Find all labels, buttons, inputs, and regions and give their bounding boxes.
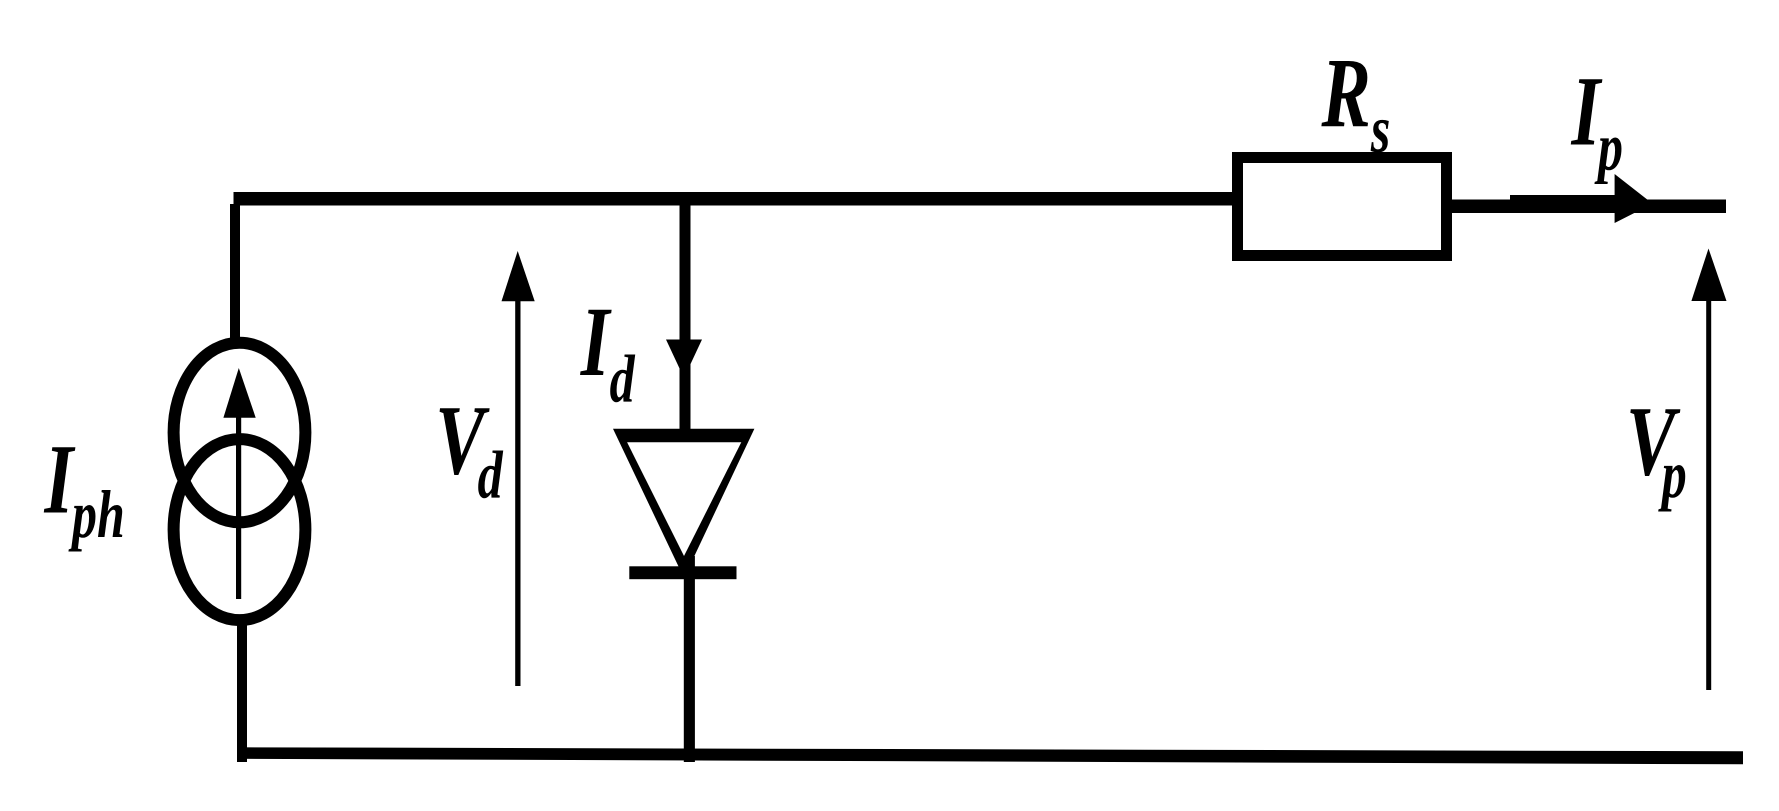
current source I_ph upper ellipse bbox=[174, 343, 306, 523]
diode D1 triangle inner bbox=[627, 442, 741, 556]
arrow I_p head bbox=[1615, 174, 1653, 223]
current source I_ph lower ellipse bbox=[174, 439, 306, 620]
wire diode branch lower bbox=[684, 556, 695, 762]
svg-text:Rs: Rs bbox=[1321, 38, 1391, 166]
arrow V_p line bbox=[1706, 301, 1711, 690]
wire left vertical lower bbox=[237, 620, 247, 762]
wire top horizontal bbox=[234, 192, 1240, 206]
svg-text:Vp: Vp bbox=[1626, 387, 1687, 512]
svg-text:Id: Id bbox=[580, 287, 636, 416]
wire left vertical upper bbox=[230, 204, 240, 344]
wire right of resistor bbox=[1450, 200, 1726, 214]
current source arrow shaft bbox=[236, 405, 241, 599]
svg-text:Ip: Ip bbox=[1571, 57, 1623, 184]
svg-text:Iph: Iph bbox=[44, 425, 125, 552]
arrow V_d head bbox=[502, 251, 535, 301]
current source arrowhead bbox=[223, 368, 255, 418]
svg-text:Vd: Vd bbox=[435, 386, 503, 512]
wire diode branch upper bbox=[680, 205, 691, 442]
arrow V_p head bbox=[1691, 249, 1726, 302]
arrow I_d head bbox=[666, 340, 702, 379]
diode D1 triangle outer bbox=[613, 429, 754, 578]
wire bottom horizontal bbox=[237, 747, 1743, 764]
diode D1 cathode bar bbox=[629, 566, 736, 579]
arrow I_p shaft bbox=[1510, 195, 1622, 208]
arrow V_d line bbox=[515, 301, 520, 686]
resistor Rs body bbox=[1238, 158, 1447, 256]
